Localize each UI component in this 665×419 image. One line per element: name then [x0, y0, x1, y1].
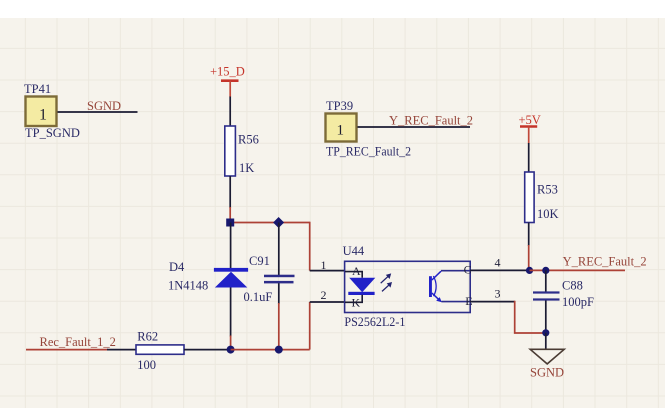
svg-text:U44: U44 [343, 244, 365, 258]
U44 LED anode lead [345, 272, 362, 278]
wire C88 bottom lead [545, 301, 547, 333]
wire top rail [230, 222, 310, 224]
wire pin 2 [310, 301, 345, 303]
wire pin 4 [470, 269, 530, 271]
diode D4 [168, 260, 248, 293]
svg-text:K: K [352, 296, 361, 310]
wire R62 left lead [107, 349, 137, 351]
wire D4 column upper [230, 223, 232, 269]
LED light arrow lower [382, 282, 392, 291]
svg-text:TP41: TP41 [24, 82, 51, 96]
wire C91 bottom lead [278, 283, 280, 304]
wire C91 to bottom rail (red) [278, 303, 280, 350]
capacitor C91 [244, 254, 295, 304]
svg-text:+15_D: +15_D [210, 65, 245, 79]
svg-text:TP39: TP39 [326, 99, 353, 113]
wire pin4 rail to net label (red) [530, 269, 626, 271]
test point TP41 [24, 82, 80, 140]
wire pin 1 [310, 270, 345, 272]
svg-text:1: 1 [337, 122, 345, 138]
svg-text:100: 100 [137, 358, 156, 372]
U44 phototransistor [429, 271, 470, 303]
wire ground stub [545, 333, 547, 349]
resistor R62 [136, 329, 184, 372]
svg-text:Rec_Fault_1_2: Rec_Fault_1_2 [40, 335, 116, 349]
resistor R56 [225, 126, 259, 176]
wire elbow to pin 1 [309, 222, 311, 271]
node junction dot R53/pin4 [526, 267, 533, 274]
wire +15_D to R56 [229, 97, 231, 127]
svg-text:C: C [464, 263, 472, 277]
wire C88 top lead [545, 270, 547, 291]
svg-text:4: 4 [495, 256, 501, 270]
wire R62 right lead [184, 349, 231, 351]
wire TP39 to net [358, 126, 471, 128]
svg-text:TP_SGND: TP_SGND [25, 126, 80, 140]
svg-text:Y_REC_Fault_2: Y_REC_Fault_2 [389, 114, 473, 128]
svg-text:10K: 10K [537, 207, 559, 221]
svg-text:TP_REC_Fault_2: TP_REC_Fault_2 [326, 145, 411, 159]
node junction dot C88 bottom / ground [542, 329, 549, 336]
U44 LED [348, 278, 375, 295]
svg-text:2: 2 [321, 288, 327, 302]
svg-text:1: 1 [321, 258, 327, 272]
wire pin 3 elbow to C88 bottom (red) [515, 301, 546, 333]
wire D4 to bottom rail (red) [230, 336, 232, 350]
wire R53 bottom lead [528, 223, 530, 247]
wire pin2 elbow to bottom rail [309, 302, 311, 350]
LED light arrow upper [381, 273, 392, 283]
wire R56 bottom lead [229, 176, 231, 208]
wire TP41 to net SGND [58, 111, 138, 113]
svg-text:3: 3 [495, 287, 501, 301]
power port +15_D [210, 65, 245, 98]
svg-text:A: A [352, 264, 361, 278]
node junction dot C91/bottom rail [275, 346, 283, 354]
test point TP39 [326, 99, 412, 159]
resistor R53 [525, 172, 559, 223]
svg-text:100pF: 100pF [562, 295, 594, 309]
svg-text:SGND: SGND [530, 366, 564, 380]
svg-text:Y_REC_Fault_2: Y_REC_Fault_2 [563, 254, 647, 268]
wire pin 3 [470, 301, 515, 303]
svg-text:R62: R62 [137, 329, 158, 343]
U44 LED cathode lead [345, 295, 362, 303]
svg-text:1K: 1K [239, 161, 254, 175]
svg-text:C91: C91 [249, 254, 270, 268]
svg-text:1N4148: 1N4148 [168, 279, 208, 293]
svg-text:PS2562L2-1: PS2562L2-1 [344, 315, 405, 329]
wire C91 top lead [278, 223, 280, 276]
svg-text:R56: R56 [238, 133, 259, 147]
svg-text:0.1uF: 0.1uF [244, 290, 273, 304]
wire R56 to top rail (red) [229, 207, 231, 223]
svg-text:+5V: +5V [519, 113, 541, 127]
op-amp U44 box (optocoupler) [343, 244, 471, 329]
node diamond junction at C91 column [273, 217, 284, 228]
wire D4 column lower [230, 288, 232, 337]
svg-text:1: 1 [39, 106, 47, 123]
svg-text:R53: R53 [537, 183, 558, 197]
node junction dot D4/bottom rail [227, 346, 235, 354]
svg-text:C88: C88 [562, 279, 583, 293]
svg-text:D4: D4 [169, 260, 185, 274]
ground SGND [530, 349, 564, 379]
wire +5V to R53 [528, 143, 530, 173]
power port +5V [519, 113, 541, 144]
node square junction at R56/D4 column [226, 219, 234, 227]
wire R53 to pin4 junction (red) [528, 245, 530, 270]
node junction dot C88 top [542, 267, 549, 274]
wire Rec_Fault_1_2 (red) [26, 349, 108, 351]
svg-text:SGND: SGND [87, 99, 121, 113]
wire bottom rail (red) [231, 349, 310, 351]
capacitor C88 [533, 279, 594, 309]
